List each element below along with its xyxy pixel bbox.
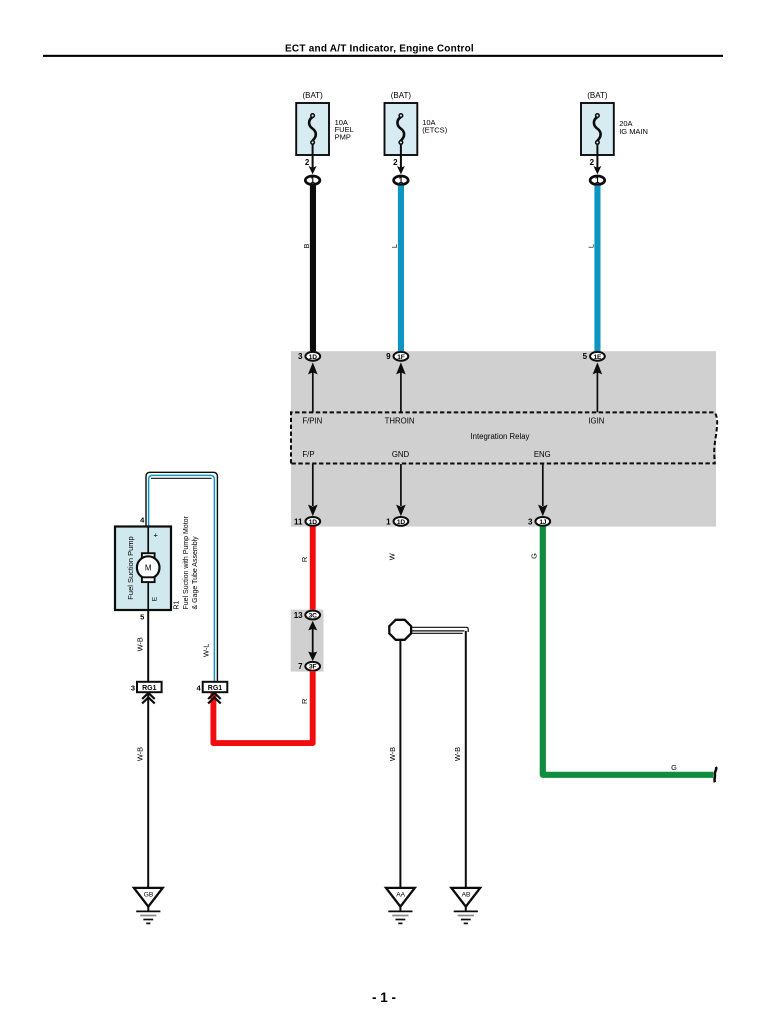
- svg-text:9: 9: [386, 352, 391, 361]
- wire L (blue) fuse ETCS to relay pin 9 1F: [398, 186, 404, 352]
- connector RG1 pin 3: [137, 682, 162, 692]
- svg-text:Fuel Suction Pump: Fuel Suction Pump: [126, 536, 135, 599]
- svg-text:+: +: [154, 531, 159, 540]
- svg-text:- 1 -: - 1 -: [372, 990, 396, 1005]
- wire W-L inner edge line: [152, 477, 212, 479]
- svg-text:RG1: RG1: [208, 685, 223, 692]
- svg-text:L: L: [390, 244, 399, 248]
- wire W-B octagon to corner (double line): [411, 626, 467, 628]
- svg-text:E: E: [151, 596, 158, 601]
- connector RG1 pin 4: [203, 682, 228, 692]
- svg-text:1D: 1D: [309, 354, 317, 361]
- motor M1 circle: [137, 556, 160, 579]
- svg-text:1F: 1F: [397, 354, 404, 361]
- svg-text:2: 2: [590, 158, 595, 167]
- svg-text:3: 3: [131, 683, 135, 692]
- svg-text:7: 7: [298, 662, 303, 671]
- svg-text:1: 1: [386, 517, 391, 526]
- arrow down from F/P to pin 11 1D: [312, 464, 314, 506]
- arrow up to pin 9 1F: [400, 372, 402, 412]
- node junction octagon: [389, 620, 411, 640]
- svg-text:5: 5: [583, 352, 588, 361]
- arrow down from GND to pin 1 1D: [400, 464, 402, 506]
- shield chevron under RG1 pin 3: [142, 693, 155, 704]
- pump internal lead (top): [147, 527, 149, 553]
- svg-text:1D: 1D: [397, 519, 405, 526]
- junction pin 7 (connector 3F): [305, 662, 320, 671]
- svg-text:1J: 1J: [539, 519, 546, 526]
- wire L (blue) fuse IG MAIN to relay pin 5 1E: [594, 186, 600, 352]
- connector circle 1 (fuse ETCS): [394, 176, 409, 185]
- fuse IG MAIN box: [581, 103, 614, 155]
- wire W-B pump pin 5 to RG1 pin 3: [147, 610, 149, 681]
- svg-text:W: W: [387, 553, 396, 560]
- svg-text:2: 2: [305, 158, 310, 167]
- svg-text:RG1: RG1: [142, 685, 157, 692]
- svg-text:GND: GND: [392, 450, 410, 459]
- svg-text:W-B: W-B: [135, 747, 144, 761]
- svg-text:3C: 3C: [309, 612, 317, 619]
- svg-text:GB: GB: [144, 892, 154, 899]
- arrow up to pin 3 1D: [312, 372, 314, 412]
- svg-text:G: G: [529, 553, 538, 559]
- svg-text:W-B: W-B: [453, 747, 462, 761]
- svg-text:R: R: [300, 557, 309, 562]
- arrow down from ENG to pin 3 1J: [542, 464, 544, 506]
- arrow into connector 1 (fuse ETCS): [397, 166, 405, 174]
- relay pin 3 (connector 1J): [535, 517, 550, 526]
- connector circle 1 (fuse IG MAIN): [590, 176, 605, 185]
- svg-text:AB: AB: [462, 892, 471, 899]
- wire W-L blue stripe path: [149, 475, 215, 682]
- svg-text:3F: 3F: [309, 664, 316, 671]
- fuse IG MAIN element symbol: [594, 114, 601, 170]
- svg-text:3: 3: [528, 517, 533, 526]
- svg-text:2: 2: [393, 158, 398, 167]
- svg-text:THROIN: THROIN: [385, 417, 415, 426]
- svg-text:F/PIN: F/PIN: [302, 417, 322, 426]
- svg-text:W-L: W-L: [201, 644, 210, 657]
- relay pin 9 (connector 1F): [394, 352, 409, 361]
- continuation break mark on wire G: [714, 767, 716, 782]
- svg-text:(BAT): (BAT): [587, 91, 608, 100]
- svg-text:W-B: W-B: [135, 637, 144, 651]
- svg-text:ENG: ENG: [534, 450, 551, 459]
- svg-text:1: 1: [399, 176, 404, 185]
- svg-text:(BAT): (BAT): [391, 91, 412, 100]
- svg-text:1D: 1D: [309, 519, 317, 526]
- motor M1 bottom brush cap: [142, 577, 155, 582]
- wire G (green) relay pin 3 1J to right edge: [543, 527, 714, 775]
- wire W-L black outline path (pump pin 4 to RG1 pin 4): [146, 472, 217, 682]
- svg-text:ECT and A/T Indicator, Engine: ECT and A/T Indicator, Engine Control: [285, 43, 474, 54]
- ground AB: [451, 888, 480, 924]
- ground AA: [386, 888, 415, 924]
- svg-text:AA: AA: [396, 892, 405, 899]
- ground GB: [134, 888, 163, 924]
- junction block gray body (3C/3F): [291, 610, 324, 672]
- connector circle 1 (fuse FUEL PMP): [305, 176, 320, 185]
- svg-text:W-B: W-B: [388, 747, 397, 761]
- wire B (black) fuse FUEL PMP to relay pin 3 1D: [310, 186, 316, 352]
- fuse FUEL PMP box: [296, 103, 329, 155]
- svg-text:11: 11: [294, 517, 303, 526]
- pump internal lead (bottom): [147, 582, 149, 610]
- svg-text:1: 1: [310, 176, 315, 185]
- svg-text:G: G: [671, 763, 677, 772]
- relay U1 gray body: [291, 351, 716, 526]
- fuse FUEL PMP element symbol: [309, 114, 316, 170]
- double arrow between 3C and 3F: [312, 624, 314, 658]
- relay pin 3 (connector 1D): [305, 352, 320, 361]
- integration relay dashed outline: [291, 412, 717, 463]
- fuse ETCS element symbol: [397, 114, 404, 170]
- fuel suction pump R1 body: [115, 527, 171, 611]
- svg-text:Integration Relay: Integration Relay: [471, 432, 530, 441]
- arrow into connector 1 (fuse FUEL PMP): [309, 166, 317, 174]
- svg-text:3: 3: [298, 352, 303, 361]
- motor M1 top brush cap: [142, 553, 155, 558]
- svg-text:1: 1: [595, 176, 600, 185]
- relay pin 5 (connector 1E): [590, 352, 605, 361]
- svg-text:F/P: F/P: [302, 450, 314, 459]
- arrow into connector 1 (fuse IG MAIN): [593, 166, 601, 174]
- relay pin 1 (connector 1D): [394, 517, 409, 526]
- svg-text:R: R: [300, 699, 309, 704]
- arrow up to pin 5 1E: [596, 372, 598, 412]
- wire R (red) 3F down, left, up to RG1 pin 4: [213, 671, 312, 743]
- svg-text:L: L: [587, 244, 596, 248]
- title rule: [43, 55, 723, 57]
- relay pin 11 (connector 1D): [305, 517, 320, 526]
- svg-text:1E: 1E: [594, 354, 602, 361]
- fuse ETCS box: [385, 103, 418, 155]
- svg-text:M: M: [145, 564, 152, 573]
- wire R (red) relay pin 11 1D to junction 13 3C: [310, 527, 316, 611]
- junction pin 13 (connector 3C): [305, 611, 320, 620]
- wire W-B down to ground AB: [465, 631, 467, 888]
- svg-text:B: B: [302, 243, 311, 248]
- svg-text:5: 5: [140, 613, 144, 622]
- wire W-B RG1 pin 3 to ground GB: [147, 693, 149, 888]
- wire W-B octagon down to ground AA: [399, 640, 401, 888]
- svg-text:(BAT): (BAT): [302, 91, 323, 100]
- svg-text:13: 13: [294, 611, 303, 620]
- shield chevron under RG1 pin 4: [208, 693, 221, 704]
- svg-text:IGIN: IGIN: [588, 417, 604, 426]
